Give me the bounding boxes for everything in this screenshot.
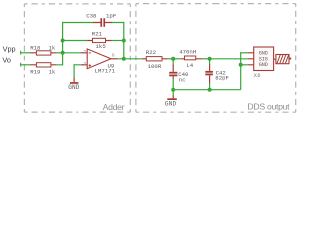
ground GND (op-amp) (68, 77, 80, 91)
node R21 left junction (61, 39, 65, 43)
frame DDS output box (136, 4, 296, 113)
svg-text:R18: R18 (30, 45, 41, 52)
svg-text:1k: 1k (49, 45, 56, 52)
svg-text:6: 6 (112, 52, 115, 58)
wire gnd riser (240, 53, 242, 90)
svg-text:R19: R19 (30, 69, 41, 76)
svg-text:1pF: 1pF (106, 13, 117, 20)
wire Vo to R19 (20, 64, 30, 66)
node R21 right junction (122, 39, 126, 43)
wire riser to GND pin top (240, 52, 248, 54)
wire R21 row right (112, 40, 124, 42)
node GND pin bottom junction (239, 63, 243, 67)
svg-text:R22: R22 (146, 49, 157, 56)
wire R19 up to summing node (56, 53, 62, 66)
wire SIG from filter (210, 58, 248, 60)
inductor L4 (173, 49, 202, 70)
connector X6 (248, 47, 274, 79)
svg-text:X6: X6 (254, 73, 261, 79)
wire summing node to op-amp pin 2 (63, 52, 81, 54)
svg-text:470nH: 470nH (179, 49, 196, 56)
wire R21 row left (63, 40, 88, 42)
wire R18 to summing node (56, 52, 62, 54)
svg-text:3: 3 (83, 61, 86, 67)
coax jack symbol (274, 55, 292, 64)
wire Vpp to R18 (20, 52, 30, 54)
svg-text:LM7171: LM7171 (95, 68, 116, 75)
svg-text:82pF: 82pF (215, 75, 229, 82)
wire Vpp stub tick (20, 51, 22, 55)
svg-text:Vo: Vo (2, 55, 11, 64)
wire op-amp output (118, 58, 142, 60)
resistor R22 (142, 49, 168, 70)
wire R22 to C40 node (168, 58, 174, 60)
wire to GND pin bottom (241, 64, 248, 66)
svg-text:Vpp: Vpp (3, 45, 16, 54)
resistor R18 (30, 45, 56, 55)
svg-text:GND: GND (68, 84, 80, 91)
wire feedback top rail right (112, 22, 124, 59)
op-amp U9 (81, 49, 118, 75)
svg-text:100R: 100R (148, 63, 162, 70)
frame Adder box (24, 4, 130, 112)
capacitor C42 (205, 59, 229, 90)
svg-text:DDS output: DDS output (247, 101, 290, 111)
svg-text:GND: GND (165, 100, 177, 107)
node C40 top junction (171, 57, 175, 61)
resistor R21 (88, 31, 112, 51)
node C42 bottom junction (208, 88, 212, 92)
svg-text:1k: 1k (49, 69, 56, 76)
capacitor C40 (169, 59, 189, 90)
wire pin3 to gnd corner (74, 64, 81, 77)
wire ground rail (173, 89, 241, 91)
svg-text:1k5: 1k5 (96, 43, 107, 50)
node summing junction (61, 51, 65, 55)
svg-text:2: 2 (83, 49, 86, 55)
node output junction (122, 57, 126, 61)
resistor R19 (30, 63, 56, 76)
svg-text:L4: L4 (186, 62, 193, 69)
svg-text:R21: R21 (92, 31, 103, 38)
svg-text:nc: nc (179, 77, 186, 84)
node C40 bottom junction (171, 88, 175, 92)
svg-text:GND: GND (259, 62, 268, 68)
svg-text:C38: C38 (86, 13, 97, 20)
node C42 top junction (208, 57, 212, 61)
capacitor C38 (86, 13, 117, 27)
wire Vo stub tick (20, 63, 22, 67)
svg-text:Adder: Adder (103, 102, 125, 112)
wire summing node up to feedback (62, 23, 64, 53)
wire feedback top rail left (62, 22, 93, 24)
ground GND (DDS) (165, 90, 177, 108)
wire L4 to C42 node (202, 58, 210, 60)
